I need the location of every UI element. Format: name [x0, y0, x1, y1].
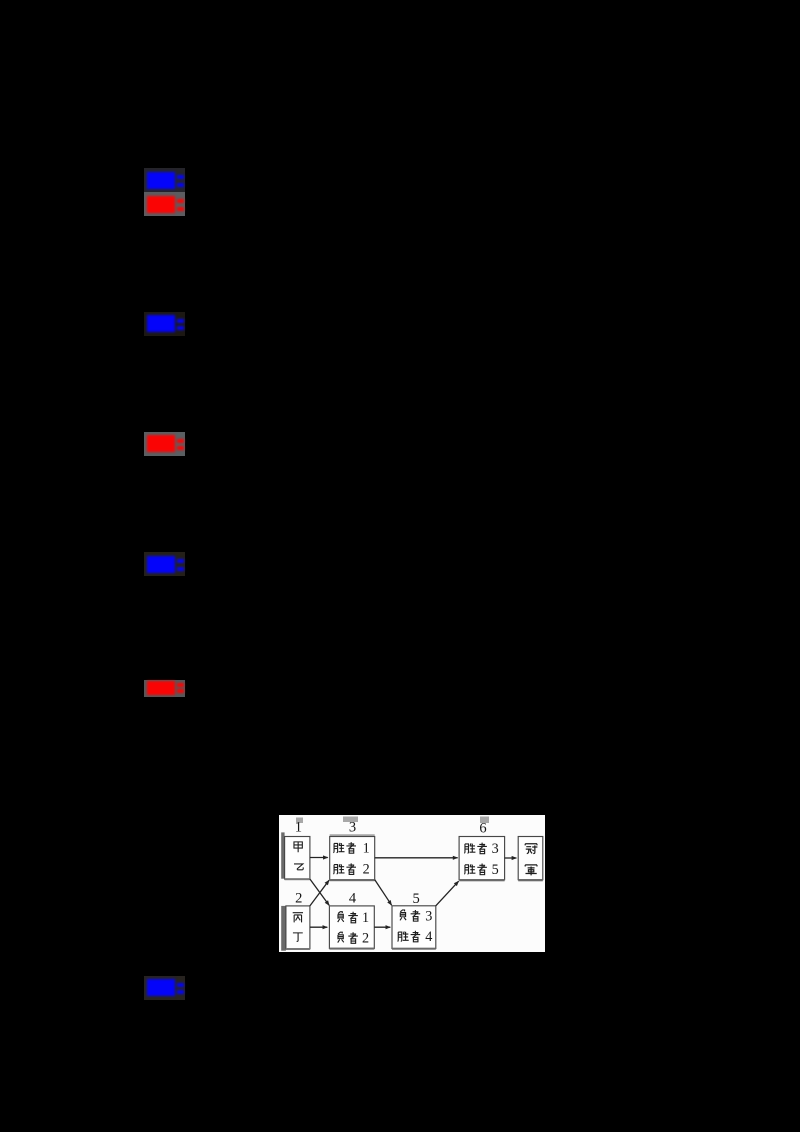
arrow 甲乙 to box4 (cross down) — [310, 879, 329, 905]
label red 3 (详解:) — [144, 680, 185, 697]
arrow box3 to box5 (diagonal down) — [375, 879, 392, 905]
label blue 4 (点睛:) — [144, 976, 185, 1000]
svg-text:5: 5 — [492, 861, 499, 877]
gray band above box3 — [330, 834, 375, 836]
box 丙丁 — [286, 905, 310, 948]
box 甲乙 — [285, 836, 310, 879]
box 4 负者1/负者2 — [329, 905, 374, 948]
svg-text:2: 2 — [362, 930, 369, 946]
label red 1 (详解:) — [144, 192, 185, 216]
svg-text:2: 2 — [295, 890, 302, 906]
arrow box4 to box5 — [374, 926, 390, 928]
svg-text:6: 6 — [479, 820, 486, 836]
label blue 3 (分析:) — [144, 552, 185, 576]
label blue 2 (分析:) — [144, 312, 185, 336]
arrow box6 to 冠军 — [505, 857, 517, 859]
gray smudge above label 3 — [343, 816, 358, 822]
box 丙丁 gray left bar — [281, 905, 286, 950]
svg-text:1: 1 — [362, 910, 369, 926]
label red 2 (详解:) — [144, 432, 185, 456]
svg-text:4: 4 — [349, 890, 357, 906]
gray smudge above label 6 — [480, 816, 489, 823]
box 甲乙 gray left bar — [281, 832, 284, 878]
box 6 胜者3/胜者5 — [459, 836, 505, 879]
arrow box5 to box6 (diagonal up) — [436, 881, 459, 906]
tournament bracket diagram — [279, 815, 545, 953]
box 3 胜者1/胜者2 — [330, 836, 375, 879]
svg-text:3: 3 — [425, 908, 432, 924]
svg-text:4: 4 — [425, 929, 432, 945]
white background of scanned figure — [279, 815, 545, 953]
box 5 负者3/胜者4 — [392, 905, 436, 948]
svg-text:3: 3 — [492, 841, 499, 857]
svg-text:1: 1 — [363, 840, 370, 856]
label blue 1 (分析:) — [144, 168, 185, 192]
svg-text:5: 5 — [412, 890, 419, 906]
arrow 丙丁 to box4 — [310, 926, 327, 928]
arrow 甲乙 to box3 — [310, 856, 328, 858]
box 冠军 — [518, 836, 543, 879]
svg-text:2: 2 — [363, 861, 370, 877]
arrow 丙丁 to box3 (cross up) — [310, 880, 329, 906]
gray smudge above label 1 — [296, 817, 303, 823]
arrow box3 to box6 (long) — [375, 856, 458, 858]
svg-text:3: 3 — [349, 819, 356, 835]
svg-text:1: 1 — [295, 819, 302, 835]
